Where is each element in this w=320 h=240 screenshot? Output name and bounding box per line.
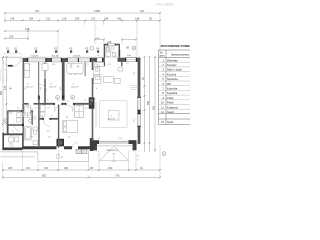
left room bottom wall [3,148,23,151]
svg-text:64: 64 [95,98,97,100]
svg-text:435: 435 [134,119,136,122]
svg-text:265: 265 [75,17,80,21]
svg-text:364: 364 [119,138,122,140]
svg-text:33,6 m²: 33,6 m² [108,118,116,121]
interior micro dimension texts [10,55,139,161]
right vertical dimension lines [145,57,156,152]
svg-text:Garaż: Garaż [167,110,175,114]
wc door arc [15,126,21,132]
wc [33,127,37,130]
left vertical dimension lines [3,57,7,150]
svg-text:317: 317 [68,137,71,139]
svg-text:228: 228 [30,137,33,139]
kitchen top counter [94,63,104,67]
svg-text:950: 950 [152,105,155,110]
right-wall windows [131,86,141,127]
terrace steps bottom middle [96,146,134,162]
svg-text:Pokój: Pokój [167,96,174,100]
svg-text:421: 421 [140,9,145,13]
wc room fixtures [9,137,14,142]
svg-text:198: 198 [48,137,51,139]
svg-text:286: 286 [52,64,55,66]
svg-text:Korytarz: Korytarz [167,63,177,67]
right section bottom wall with terrace door [92,140,100,144]
svg-text:45: 45 [137,160,139,162]
svg-text:Wiatrołap: Wiatrołap [167,58,178,62]
kitchen counter [94,67,100,74]
back steps outside [76,149,87,153]
svg-text:852: 852 [42,174,47,178]
svg-text:90: 90 [17,108,19,110]
jog wall connecting sections [90,138,94,151]
bedroom door arc on x38 wall [40,84,47,91]
bottom dimension lines [3,170,160,178]
svg-text:690: 690 [0,90,3,95]
left outside terrace lines [1,151,89,162]
svg-text:24: 24 [47,100,49,102]
svg-text:294: 294 [64,166,69,170]
svg-text:90: 90 [57,101,59,103]
svg-text:taras 24 m²: taras 24 m² [107,149,119,152]
bathroom door arc [43,120,50,127]
boiler dark blob [57,139,65,147]
faint car rect outside left [1,70,7,80]
svg-text:28,4 m²: 28,4 m² [71,86,79,89]
svg-text:pom.: pom. [160,55,165,57]
svg-text:421: 421 [35,9,40,13]
svg-text:448: 448 [25,27,30,31]
svg-text:118: 118 [62,17,67,21]
living room rug + table [96,101,127,128]
svg-text:1588: 1588 [94,9,100,13]
svg-text:148: 148 [135,17,140,21]
svg-text:113: 113 [108,64,111,66]
svg-text:Taras: Taras [167,120,174,124]
top dimension line row 1 [5,13,160,40]
laundry wall + fixtures cluster left [8,110,33,112]
laundry door arc [22,111,27,116]
svg-text:152: 152 [26,166,31,170]
svg-text:866: 866 [147,100,150,105]
left outer wall upper [22,58,24,134]
witness lines [5,13,160,57]
svg-text:Pokój: Pokój [167,101,174,105]
svg-text:150: 150 [85,108,88,110]
kitchen door arc [93,70,100,77]
hall furniture [24,106,30,115]
faint porch line [2,53,22,55]
svg-text:203: 203 [44,166,49,170]
svg-text:80: 80 [42,116,44,118]
protruding room top [104,44,122,67]
entrance porch arcs top-left [2,57,22,66]
svg-text:24: 24 [84,100,86,102]
svg-text:Kuchnia: Kuchnia [167,72,177,76]
svg-text:(A): (A) [9,87,12,90]
svg-text:12: 12 [41,64,43,66]
svg-text:390: 390 [41,87,43,90]
right outer wall [138,58,141,144]
svg-text:118: 118 [97,55,100,57]
svg-text:Nazwa pomieszcz: Nazwa pomieszcz [171,54,190,56]
svg-text:102: 102 [91,17,96,21]
wardrobe left room [24,64,30,78]
svg-text:90: 90 [137,156,139,158]
svg-text:90: 90 [67,101,69,103]
svg-text:146+86: 146+86 [73,56,81,58]
svg-text:340: 340 [117,17,122,21]
svg-text:Sypialnia: Sypialnia [167,91,178,95]
svg-text:264: 264 [104,17,109,21]
svg-text:475: 475 [4,85,7,90]
svg-text:11,8 m²: 11,8 m² [49,86,57,89]
svg-text:206: 206 [134,72,136,75]
svg-text:146+86: 146+86 [31,56,39,58]
svg-text:235: 235 [9,35,14,39]
svg-text:301: 301 [126,63,129,65]
svg-text:293: 293 [108,166,113,170]
svg-text:211: 211 [46,17,51,21]
svg-text:25: 25 [98,138,100,140]
corridor wall horizontal [24,103,93,105]
witness lines bottom [3,145,161,178]
svg-text:12: 12 [35,108,37,110]
svg-text:ZESTAWIENIE POMIESZCZEŃ: ZESTAWIENIE POMIESZCZEŃ [161,43,191,48]
bathroom tub [25,127,32,140]
svg-text:205: 205 [10,135,13,137]
dimension ticks row1 [4,12,161,41]
lower-left interior walls [8,96,59,148]
svg-text:90: 90 [51,116,53,118]
dining table [67,63,83,73]
bathroom sink [33,141,38,145]
room labels [6,50,115,133]
protrusion fixtures [106,46,116,56]
svg-text:7,4 m²: 7,4 m² [25,112,31,115]
svg-text:Spiżarnia: Spiżarnia [167,77,178,81]
svg-text:Rzut parteru: Rzut parteru [157,3,175,7]
small dresser second room [42,64,48,71]
door arc from hall into protrusion [110,51,116,57]
svg-text:2,1 m²: 2,1 m² [6,112,12,115]
svg-text:390: 390 [60,87,62,90]
svg-text:WC: WC [167,82,171,86]
circled markers [4,46,166,155]
svg-text:255: 255 [47,108,50,110]
radiator marks inside [131,86,138,90]
svg-text:146: 146 [10,17,15,21]
svg-text:Łazienka: Łazienka [167,87,178,91]
top wall solid segments [23,58,28,62]
svg-text:365: 365 [28,64,31,66]
svg-text:736: 736 [115,174,120,178]
windows in top wall [27,58,137,62]
utility door arc [72,142,78,148]
svg-text:195: 195 [8,166,13,170]
svg-text:284: 284 [29,17,34,21]
svg-text:80: 80 [27,108,29,110]
svg-text:Salon z jadal: Salon z jadal [167,68,182,72]
dimension texts top [9,9,152,57]
window type labels row [6,48,100,51]
svg-text:Kotłownia: Kotłownia [167,105,179,109]
closet divider in corridor [75,105,84,117]
wall stubs under protrusion [104,62,121,66]
svg-text:15,2 m²: 15,2 m² [26,86,34,89]
entrance step bar [8,65,13,67]
svg-text:461: 461 [70,64,73,66]
svg-text:Nr.: Nr. [161,52,164,55]
bed bottom room [63,121,78,133]
corridor door arcs [55,105,73,112]
svg-text:25: 25 [87,64,89,66]
middle section bottom wall [23,146,92,149]
